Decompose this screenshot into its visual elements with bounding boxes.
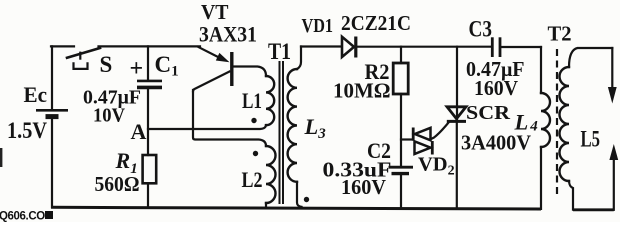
svg-text:T1: T1 bbox=[268, 39, 291, 64]
capacitor C3 bbox=[492, 37, 541, 57]
scan artifact left edge bbox=[0, 148, 2, 167]
wire bottom rail right bbox=[573, 208, 614, 211]
wire output upper with down arrow bbox=[608, 48, 617, 104]
wire left vertical lower bbox=[51, 119, 53, 207]
svg-text:10MΩ: 10MΩ bbox=[333, 79, 391, 103]
transistor VT bbox=[193, 47, 232, 92]
wire collector to L2 bbox=[193, 90, 266, 146]
resistor R2 bbox=[393, 47, 408, 166]
wire left vertical upper bbox=[51, 46, 53, 108]
inductor L1 bbox=[266, 76, 274, 125]
L1 phase dot bbox=[251, 118, 256, 123]
svg-text:T2: T2 bbox=[548, 22, 572, 46]
wire top rail middle bbox=[99, 45, 201, 47]
svg-text:Ec: Ec bbox=[24, 82, 48, 107]
battery Ec bbox=[36, 110, 68, 116]
svg-text:Q606.CO: Q606.CO bbox=[0, 211, 45, 223]
wire top rail left stub bbox=[51, 45, 74, 47]
svg-text:1.5V: 1.5V bbox=[7, 118, 47, 143]
svg-text:3AX31: 3AX31 bbox=[199, 22, 257, 47]
wire top rail VD1 to C3 bbox=[357, 46, 491, 48]
inductor L5 bbox=[560, 67, 570, 181]
wire L3 bottom lead bbox=[297, 182, 302, 207]
diode pair VD2 bbox=[401, 128, 432, 155]
L3 phase dot bbox=[304, 197, 309, 202]
svg-text:L1: L1 bbox=[242, 88, 262, 113]
capacitor C2 bbox=[389, 167, 414, 208]
svg-text:L5: L5 bbox=[581, 127, 601, 152]
svg-text:+: + bbox=[130, 56, 144, 82]
svg-text:VD2: VD2 bbox=[418, 154, 455, 179]
svg-text:L3: L3 bbox=[304, 114, 327, 142]
svg-text:160V: 160V bbox=[341, 175, 386, 199]
svg-text:L2: L2 bbox=[242, 167, 263, 192]
wire L5 bottom lead bbox=[569, 181, 573, 210]
svg-text:L4: L4 bbox=[514, 110, 539, 135]
T2 core dashed bbox=[556, 49, 558, 197]
L2 phase dot bbox=[253, 151, 258, 156]
switch S bbox=[67, 48, 100, 69]
svg-text:VD1: VD1 bbox=[302, 16, 334, 37]
svg-text:A: A bbox=[131, 119, 147, 144]
inductor L4 bbox=[541, 47, 550, 209]
svg-text:C1: C1 bbox=[155, 52, 179, 80]
wire L3 top lead bbox=[297, 47, 301, 70]
wire base lead to L1 bbox=[233, 67, 266, 77]
svg-text:2CZ21C: 2CZ21C bbox=[341, 11, 411, 35]
inductor L3 bbox=[288, 69, 297, 182]
wire output lower with up arrow bbox=[609, 144, 618, 210]
watermark Q606.CO bbox=[0, 211, 53, 223]
inductor L2 bbox=[266, 146, 276, 208]
svg-text:C3: C3 bbox=[469, 17, 493, 42]
wire bottom rail bbox=[51, 207, 541, 209]
svg-text:560Ω: 560Ω bbox=[95, 172, 140, 196]
resistor R1 bbox=[143, 155, 157, 208]
capacitor C1 bbox=[137, 46, 162, 155]
wire top rail right of T1 bbox=[301, 45, 342, 47]
svg-text:VT: VT bbox=[201, 0, 229, 24]
SCR bbox=[431, 47, 466, 209]
svg-text:SCR: SCR bbox=[466, 102, 510, 124]
svg-text:10V: 10V bbox=[93, 105, 126, 127]
wire L5 top lead bbox=[569, 48, 612, 67]
T1 core bbox=[280, 61, 284, 204]
diode VD1 bbox=[342, 37, 356, 58]
wire node A to L1 bottom bbox=[148, 125, 266, 129]
svg-text:S: S bbox=[100, 52, 113, 77]
svg-text:160V: 160V bbox=[474, 76, 518, 100]
